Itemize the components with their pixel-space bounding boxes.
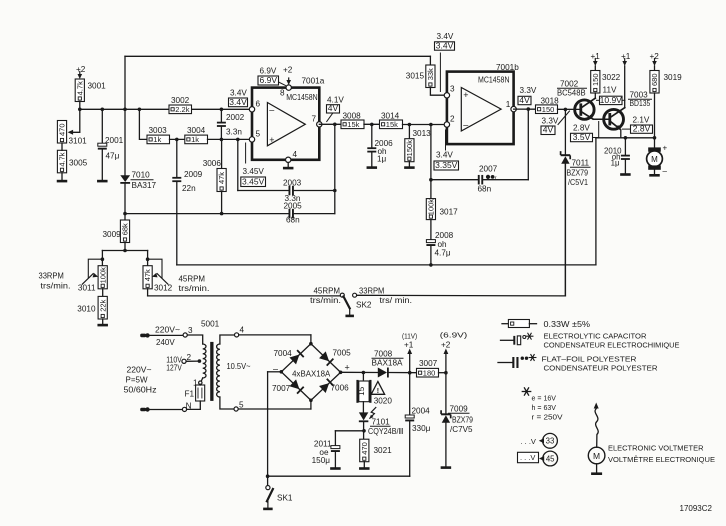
svg-text:150μ: 150μ [312, 456, 331, 465]
svg-text:BZX79: BZX79 [567, 169, 589, 178]
svg-text:33k: 33k [426, 68, 435, 80]
svg-text:3022: 3022 [602, 73, 621, 82]
svg-text:–: – [663, 167, 668, 176]
svg-text:2009: 2009 [184, 170, 203, 179]
svg-text:7007: 7007 [272, 384, 291, 393]
svg-text:BAX18A: BAX18A [372, 359, 404, 368]
svg-text:10.5V~: 10.5V~ [227, 362, 251, 371]
svg-text:+: + [663, 144, 668, 153]
svg-text:2002: 2002 [226, 113, 245, 122]
svg-text:330μ: 330μ [412, 424, 431, 433]
svg-text:7001b: 7001b [496, 63, 519, 72]
svg-text:3019: 3019 [664, 73, 683, 82]
svg-text:–: – [463, 120, 468, 130]
svg-text:47μ: 47μ [106, 152, 120, 161]
svg-text:1μ: 1μ [377, 155, 387, 164]
svg-text:+: + [463, 90, 468, 100]
svg-text:240V: 240V [156, 338, 175, 347]
svg-text:BZX79: BZX79 [452, 416, 473, 425]
svg-text:470: 470 [360, 442, 369, 455]
svg-text:3020: 3020 [374, 397, 393, 406]
svg-text:+2: +2 [283, 66, 293, 75]
svg-text:4V: 4V [519, 95, 530, 105]
svg-text:7006: 7006 [331, 384, 350, 393]
svg-text:22k: 22k [98, 299, 107, 311]
svg-text:68n: 68n [478, 185, 492, 194]
svg-text:r = 250V: r = 250V [532, 413, 563, 422]
svg-text:5: 5 [256, 130, 261, 139]
svg-text:11V: 11V [603, 86, 617, 95]
svg-text:4V: 4V [543, 125, 554, 135]
svg-text:(6.9V): (6.9V) [440, 331, 468, 340]
svg-text:M: M [593, 451, 600, 461]
svg-text:BA317: BA317 [132, 181, 157, 190]
svg-text:470: 470 [58, 123, 67, 136]
svg-text:220V~: 220V~ [155, 326, 180, 335]
svg-text:ELECTROLYTIC CAPACITOR: ELECTROLYTIC CAPACITOR [544, 331, 648, 340]
svg-text:+1: +1 [404, 341, 414, 350]
svg-text:3010: 3010 [77, 305, 96, 314]
svg-text:5: 5 [239, 401, 244, 410]
svg-text:4: 4 [293, 150, 298, 159]
svg-text:7: 7 [312, 115, 317, 124]
svg-text:7005: 7005 [333, 349, 352, 358]
svg-text:–: – [269, 104, 274, 114]
svg-text:M: M [651, 155, 658, 164]
svg-text:15: 15 [357, 386, 366, 395]
svg-text:4.7k: 4.7k [75, 81, 84, 95]
svg-text:7009: 7009 [450, 405, 469, 414]
svg-text:P=5W: P=5W [126, 376, 148, 385]
svg-text:trs/min.: trs/min. [310, 296, 341, 305]
svg-text:680: 680 [650, 73, 659, 86]
svg-text:FLAT–FOIL POLYESTER: FLAT–FOIL POLYESTER [542, 354, 638, 363]
svg-text:45RPM: 45RPM [179, 275, 206, 284]
svg-text:. . .V: . . .V [521, 437, 536, 446]
svg-text:3014: 3014 [381, 111, 400, 120]
svg-text:7010: 7010 [132, 171, 151, 180]
svg-text:180: 180 [423, 369, 436, 378]
svg-text:3004: 3004 [187, 126, 206, 135]
svg-text:BD135: BD135 [630, 99, 651, 108]
svg-text:0.33W ±5%: 0.33W ±5% [544, 320, 591, 329]
svg-text:150: 150 [542, 105, 555, 114]
svg-text:+2: +2 [441, 341, 451, 350]
svg-text:MC1458N: MC1458N [478, 76, 510, 85]
svg-text:6.9V: 6.9V [260, 67, 277, 76]
svg-text:3008: 3008 [343, 111, 362, 120]
svg-text:. . .V: . . .V [520, 453, 535, 462]
svg-text:2004: 2004 [412, 407, 431, 416]
svg-text:(11V): (11V) [402, 332, 418, 341]
svg-text:3.3n: 3.3n [226, 128, 242, 137]
svg-text:6: 6 [256, 100, 261, 109]
svg-text:SK2: SK2 [356, 301, 372, 310]
svg-text:ELECTRONIC VOLTMETER: ELECTRONIC VOLTMETER [608, 443, 704, 452]
svg-text:150: 150 [591, 73, 600, 86]
svg-text:2001: 2001 [105, 136, 124, 145]
svg-text:3007: 3007 [419, 359, 438, 368]
svg-text:trs/min.: trs/min. [41, 282, 71, 291]
svg-text:2005: 2005 [284, 202, 303, 211]
svg-text:7004: 7004 [274, 349, 293, 358]
svg-text:3.5V: 3.5V [573, 132, 591, 142]
svg-text:CONDENSATEUR POLYESTER: CONDENSATEUR POLYESTER [544, 363, 659, 372]
svg-text:33RPM: 33RPM [39, 272, 64, 281]
svg-text:7008: 7008 [374, 350, 393, 359]
svg-text:e = 16V: e = 16V [532, 394, 557, 403]
svg-text:3015: 3015 [406, 72, 425, 81]
svg-text:3017: 3017 [440, 208, 459, 217]
svg-text:7011: 7011 [572, 159, 590, 168]
svg-text:!: ! [377, 388, 379, 395]
svg-text:MC1458N: MC1458N [286, 93, 318, 102]
svg-text:50/60Hz: 50/60Hz [124, 386, 157, 395]
svg-text:3.45V: 3.45V [242, 177, 265, 187]
svg-text:17093C2: 17093C2 [680, 504, 713, 513]
svg-text:127V: 127V [166, 364, 182, 373]
svg-text:/C5V1: /C5V1 [568, 178, 588, 187]
svg-text:4V: 4V [328, 103, 339, 113]
svg-text:7101: 7101 [372, 418, 391, 427]
svg-text:68n: 68n [286, 216, 300, 225]
svg-text:3: 3 [450, 85, 455, 94]
svg-text:100k: 100k [427, 199, 436, 216]
svg-text:3.45V: 3.45V [243, 167, 265, 176]
svg-text:3: 3 [188, 326, 193, 335]
svg-text:2008: 2008 [435, 231, 454, 240]
svg-text:7001a: 7001a [302, 77, 325, 86]
svg-text:2007: 2007 [479, 165, 498, 174]
svg-text:3005: 3005 [69, 159, 88, 168]
svg-text:trs/min.: trs/min. [179, 284, 210, 293]
svg-text:3006: 3006 [203, 159, 222, 168]
svg-text:2003: 2003 [283, 179, 302, 188]
svg-text:3.35V: 3.35V [435, 160, 458, 170]
svg-text:3011: 3011 [78, 284, 96, 293]
svg-text:3021: 3021 [374, 446, 393, 455]
svg-text:33: 33 [546, 437, 555, 446]
svg-text:3.4V: 3.4V [436, 40, 454, 50]
svg-text:CONDENSATEUR ELECTROCHIMIQUE: CONDENSATEUR ELECTROCHIMIQUE [544, 340, 680, 349]
svg-text:+2: +2 [650, 52, 660, 61]
svg-text:1k: 1k [153, 135, 161, 144]
svg-text:150k: 150k [405, 140, 414, 157]
svg-text:h = 63V: h = 63V [532, 403, 557, 412]
svg-text:15k: 15k [386, 120, 398, 129]
svg-text:4: 4 [240, 326, 245, 335]
svg-text:F1: F1 [184, 390, 194, 399]
svg-text:3.3V: 3.3V [520, 86, 537, 95]
svg-text:r: r [495, 175, 497, 181]
svg-text:5001: 5001 [201, 320, 220, 329]
svg-text:2: 2 [450, 115, 455, 124]
svg-text:68k: 68k [121, 223, 130, 235]
svg-text:6.9V: 6.9V [260, 75, 278, 85]
svg-text:100k: 100k [98, 267, 107, 284]
svg-text:3001: 3001 [88, 82, 107, 91]
svg-text:220V~: 220V~ [127, 366, 152, 375]
svg-text:4.7k: 4.7k [58, 152, 67, 166]
svg-text:+: + [345, 363, 350, 373]
svg-text:47k: 47k [143, 269, 152, 281]
svg-text:trs/ min.: trs/ min. [380, 296, 413, 305]
svg-text:2.8V: 2.8V [633, 124, 651, 134]
svg-text:3002: 3002 [171, 96, 190, 105]
svg-text:7002: 7002 [560, 80, 579, 89]
svg-text:1μ: 1μ [611, 158, 620, 167]
svg-text:SK1: SK1 [277, 494, 293, 503]
svg-text:VOLTMÊTRE ELECTRONIQUE: VOLTMÊTRE ELECTRONIQUE [608, 455, 715, 464]
svg-text:3101: 3101 [69, 137, 88, 146]
svg-text:3.4V: 3.4V [436, 151, 453, 160]
svg-text:+: + [269, 135, 274, 145]
svg-text:4.7μ: 4.7μ [435, 249, 451, 258]
svg-text:3.4V: 3.4V [229, 97, 247, 107]
svg-text:45: 45 [546, 454, 555, 463]
svg-text:22n: 22n [182, 184, 196, 193]
svg-text:/C7V5: /C7V5 [450, 425, 473, 434]
svg-text:47k: 47k [217, 172, 226, 184]
svg-text:2.2k: 2.2k [175, 105, 189, 114]
svg-text:3009: 3009 [103, 230, 122, 239]
svg-text:4xBAX18A: 4xBAX18A [292, 370, 331, 379]
svg-text:33RPM: 33RPM [359, 286, 385, 295]
svg-text:3003: 3003 [149, 126, 168, 135]
svg-text:1k: 1k [191, 135, 199, 144]
svg-text:15k: 15k [347, 120, 359, 129]
svg-text:3018: 3018 [541, 96, 560, 105]
svg-text:8: 8 [280, 89, 285, 98]
svg-text:45RPM: 45RPM [314, 287, 341, 296]
svg-text:+1: +1 [591, 52, 601, 61]
svg-text:10.9V: 10.9V [600, 95, 623, 105]
svg-text:3013: 3013 [413, 129, 432, 138]
svg-text:1: 1 [506, 100, 511, 109]
svg-text:+1: +1 [621, 52, 631, 61]
svg-text:CQY24B/Ⅲ: CQY24B/Ⅲ [368, 427, 404, 436]
svg-text:BC548B: BC548B [557, 89, 586, 98]
svg-text:3012: 3012 [154, 284, 173, 293]
svg-text:+2: +2 [76, 65, 86, 74]
